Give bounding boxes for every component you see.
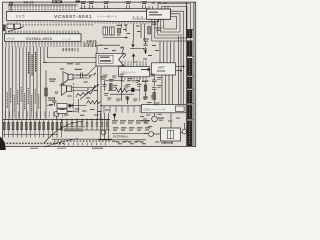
off-page flag TO CONSOLE	[96, 53, 124, 66]
bus2 pin stubs	[82, 5, 146, 8]
label 4-C15	[142, 81, 148, 82]
capacitor C40	[141, 118, 149, 123]
handwritten squiggle	[121, 47, 125, 58]
resistor array RN1 columns	[3, 120, 62, 135]
flag text	[100, 57, 111, 62]
wire h cluster	[103, 24, 128, 38]
label 4-R9	[48, 98, 55, 101]
polarized cap C13 (filled)	[131, 88, 134, 92]
jumper block J1	[7, 24, 13, 29]
H bus above external	[101, 105, 142, 107]
cap C15	[144, 97, 148, 99]
signal arrow down to bar	[130, 41, 135, 48]
volume pot R5	[76, 87, 95, 98]
bottom bus upper	[3, 119, 110, 121]
bus2 net labels	[81, 1, 148, 4]
transistor Q2	[54, 111, 59, 119]
stub connections	[176, 66, 185, 71]
IC UA11 VC2982-0002	[5, 34, 82, 42]
U302 sub box	[176, 106, 185, 111]
modulator caption	[161, 142, 173, 143]
pot wiper arrow	[80, 84, 99, 100]
ground rail	[60, 129, 110, 131]
stamp mark 2	[75, 1, 80, 3]
labels above bottom bus	[60, 109, 109, 116]
inductor L2 label	[158, 118, 164, 121]
wires below door switch	[162, 75, 173, 105]
shield boundary arc	[44, 121, 84, 143]
diagonal wire	[8, 27, 24, 32]
grid pin number row	[3, 143, 64, 145]
cluster marks top mid	[117, 25, 140, 36]
junction dots	[87, 73, 95, 90]
IC U6 (top right)	[147, 9, 171, 19]
wire drop x133	[133, 24, 135, 42]
wires loops to door switch	[160, 42, 174, 63]
arrow down small	[144, 47, 147, 54]
U6 text	[149, 12, 162, 16]
U202 bottom pins	[122, 77, 146, 80]
flag corner diagonal	[86, 66, 97, 77]
bus to modulator	[98, 139, 146, 141]
scanner corner shadow	[0, 137, 6, 151]
wire drops x141 x144	[141, 24, 145, 42]
scattered value labels mid-right	[103, 74, 162, 106]
up arrow symbol	[126, 96, 130, 104]
reg U7	[103, 27, 108, 35]
power node symbol	[10, 2, 13, 11]
shield boundary arc 2	[44, 139, 78, 148]
bundle net name labels lower	[7, 87, 39, 112]
label RV	[117, 25, 122, 26]
label 4-R3	[100, 76, 107, 79]
top right cluster labels	[143, 45, 159, 60]
capacitor C3	[76, 73, 87, 79]
RF modulator box	[161, 128, 181, 141]
U6 top pins	[149, 6, 168, 9]
bottom margin note 2	[57, 148, 66, 149]
grid column labels (vertical)	[5, 112, 62, 118]
U202 top pin numbers	[122, 61, 147, 62]
U5 top pin numbers	[8, 9, 75, 11]
label 2-C3	[75, 69, 83, 70]
wire to modulator	[170, 113, 172, 128]
ground arrow	[113, 113, 117, 121]
junction ring	[55, 91, 57, 93]
nested wire loops	[152, 4, 191, 41]
connector pin row	[52, 138, 112, 140]
resistor R14	[144, 85, 147, 91]
bundle net name labels (vertical text)	[29, 52, 36, 76]
vertical wire mid	[100, 67, 102, 120]
wire drops	[101, 113, 109, 139]
paper background	[0, 0, 198, 150]
resistor R11 vertical	[110, 84, 113, 90]
transistor Q4	[152, 113, 158, 122]
UA11 top pin stubs	[6, 31, 78, 34]
cap C8	[53, 97, 57, 106]
connector label block	[3, 25, 6, 32]
IC U5 VCS007-0001	[7, 11, 159, 22]
label c-40	[143, 39, 149, 42]
arrow tail wires	[134, 48, 145, 66]
wire H mid	[97, 45, 120, 53]
resistor R20 on bundle wire	[45, 88, 48, 96]
resistor R9 zigzag	[87, 101, 101, 105]
speaker SP2	[62, 83, 72, 95]
wire x97 down	[97, 67, 99, 120]
speaker wires	[72, 75, 96, 91]
misc junction dots	[43, 62, 154, 107]
label 2-C3 area	[67, 63, 73, 64]
transistor Q3	[101, 130, 106, 135]
sheet border frame	[3, 2, 196, 146]
sw wire stubs	[63, 48, 78, 52]
cap C41	[153, 23, 157, 25]
jumper block J2	[14, 24, 20, 29]
bottom mid-right fill marks	[104, 47, 146, 144]
U5 bottom pin stubs	[8, 20, 155, 24]
cap C16	[152, 74, 157, 87]
dashed partition	[73, 83, 75, 113]
modulator inner shield	[168, 130, 174, 139]
bus wire upper left	[8, 4, 78, 6]
U5 bottom pin numbers	[8, 24, 93, 26]
trim R21	[118, 29, 121, 34]
labels under U202 pins	[122, 80, 149, 81]
title strip revision bars	[187, 30, 192, 147]
bus wire upper right	[80, 8, 149, 10]
U202 top pin stubs	[122, 63, 146, 66]
diode D1	[67, 104, 76, 108]
title strip separators	[186, 30, 194, 120]
label 2-03	[63, 49, 73, 50]
cap C12	[103, 81, 107, 92]
IC U202	[119, 67, 150, 77]
jack J3	[149, 132, 161, 137]
speaker cluster extra wires	[47, 99, 87, 113]
note text block	[64, 126, 85, 131]
relay box K2	[57, 109, 67, 113]
stamp mark	[52, 0, 62, 3]
switch box LEFT DOOR	[152, 63, 176, 75]
U6 top labels	[152, 2, 167, 4]
bypass wires right	[179, 36, 184, 105]
signal arrow up	[132, 53, 137, 62]
U5 top pin stubs	[9, 5, 75, 8]
dashed partition 2	[139, 75, 141, 102]
jack J4	[181, 123, 187, 134]
reg U8	[110, 27, 115, 35]
label P-3	[60, 85, 65, 86]
speaker SP1	[63, 72, 73, 84]
bottom bus lower	[3, 134, 58, 136]
speaker cluster labels	[49, 64, 98, 106]
component value text rows	[112, 120, 151, 130]
UA11 bottom pin numbers	[6, 45, 97, 46]
relay box K1	[57, 104, 67, 109]
cap C42	[144, 42, 148, 46]
resistor R22	[148, 27, 151, 35]
left wire bundle	[6, 47, 98, 120]
capacitor row C20-C25	[61, 119, 108, 130]
grid lower ticks	[4, 135, 61, 138]
resistor R12 horizontal zigzag	[108, 88, 131, 92]
flag inner text box	[99, 55, 114, 63]
UA11 bottom pin stubs	[6, 41, 96, 44]
loop cluster labels	[148, 21, 162, 31]
bottom right extra labels	[140, 114, 180, 143]
external unit box U302	[142, 105, 187, 113]
label 2-R3	[49, 79, 56, 82]
footer note	[30, 148, 103, 149]
arrow into door switch	[141, 68, 151, 71]
lower ext wire	[112, 133, 146, 135]
wire over	[105, 80, 122, 82]
resistor R16	[153, 93, 156, 100]
paper grain	[0, 0, 1, 1]
optional note	[110, 94, 134, 95]
cap C17	[152, 88, 157, 90]
modulator pins	[165, 141, 172, 144]
SW15 wire stubs	[85, 44, 96, 48]
junction dot	[100, 45, 101, 46]
